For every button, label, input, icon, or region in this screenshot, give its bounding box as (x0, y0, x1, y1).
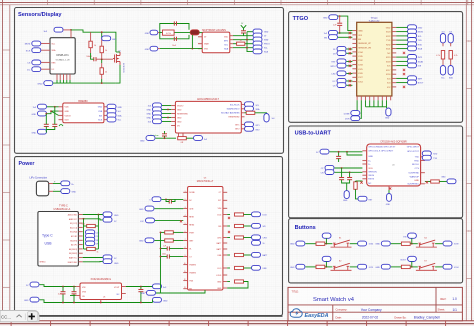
svg-text:B1A12 GND: B1A12 GND (68, 261, 78, 264)
IC U1 XC6210A332MR-G (76, 278, 126, 303)
svg-text:SDI: SDI (99, 115, 103, 117)
wire (158, 32, 160, 34)
netport max DO4 (252, 212, 267, 217)
svg-text:NC: NC (368, 183, 372, 185)
svg-text:Sensors/Display: Sensors/Display (18, 12, 62, 18)
netport D+ (uart) (321, 165, 334, 170)
netport adxl GND (147, 115, 162, 120)
svg-text:USB4105-GF-A: USB4105-GF-A (54, 208, 71, 211)
netport ttgo 3v3 (324, 30, 338, 35)
wire (396, 31, 407, 33)
netport GND (uart bottom) (386, 187, 392, 205)
netport SCL (adxl) (245, 102, 260, 107)
netport 5V (typec) (103, 217, 117, 223)
netport max BATT (252, 252, 269, 257)
netport adxl 3v3 (148, 103, 162, 108)
resistor S7 pulldown (401, 265, 410, 268)
capacitor C11 1uF (58, 292, 66, 296)
resistor R3 (100, 63, 107, 79)
netport B+ (lipo) (61, 181, 75, 186)
netport GND (max cen) (139, 206, 183, 211)
netport GND (reg out) (153, 297, 169, 302)
svg-text:LiPo Connection: LiPo Connection (30, 177, 48, 180)
svg-text:PSET: PSET (189, 232, 195, 234)
netport INT1 (245, 122, 260, 127)
IC U2 BME680 (59, 100, 108, 123)
svg-text:SCL: SCL (256, 105, 260, 107)
svg-text:VOUT: VOUT (114, 287, 120, 289)
svg-text:VIN: VIN (82, 287, 86, 289)
svg-text:SENSOR_VN: SENSOR_VN (358, 48, 371, 50)
svg-text:INT1: INT1 (256, 125, 260, 127)
svg-text:LED: LED (112, 39, 117, 41)
connector P1 LiPo (30, 177, 57, 196)
svg-text:CSB: CSB (98, 111, 103, 113)
svg-text:VDD: VDD (224, 37, 229, 39)
netport GND (reg) (24, 297, 39, 302)
svg-text:DO4: DO4 (217, 214, 221, 216)
wire (162, 105, 171, 107)
svg-text:GPIO.1/RS485 GPIO.3/TXT: GPIO.1/RS485 GPIO.3/TXT (368, 147, 396, 149)
title block (288, 287, 462, 320)
svg-text:GND: GND (163, 300, 168, 302)
svg-text:VDD: VDD (368, 168, 373, 170)
netport PROG (253, 41, 270, 46)
svg-text:CC...: CC... (1, 315, 11, 320)
svg-text:4.7k: 4.7k (454, 55, 458, 57)
svg-text:GND: GND (177, 121, 182, 123)
svg-text:A5 [CC1]: A5 [CC1] (70, 226, 77, 229)
svg-text:USB-to-UART: USB-to-UART (295, 130, 332, 136)
svg-text:GND: GND (343, 200, 348, 202)
section box Power (15, 157, 283, 316)
svg-text:VBAT: VBAT (204, 43, 210, 46)
netport DONE (344, 111, 360, 116)
wire (410, 243, 418, 245)
wire ttgo bottom bus (366, 106, 387, 108)
resistor RR DO4 (227, 213, 251, 216)
netport 3v3 (adxl pullup) (264, 114, 275, 123)
netport CS (27, 60, 41, 65)
netport max USB (252, 265, 268, 270)
svg-text:ADXL345BCCZ-RLT: ADXL345BCCZ-RLT (197, 98, 219, 101)
netport GND (253, 29, 269, 34)
svg-text:EasyEDA: EasyEDA (305, 313, 329, 319)
switch S7 (416, 261, 437, 271)
svg-text:VSS: VSS (82, 292, 87, 294)
wire (396, 56, 407, 58)
svg-text:3v3: 3v3 (204, 139, 207, 141)
wire (396, 35, 407, 37)
netport MOSI (25, 41, 41, 46)
wire charger to ports (233, 35, 253, 37)
svg-text:4.7k: 4.7k (436, 55, 440, 57)
svg-text:GPIO.3/TXT: GPIO.3/TXT (407, 151, 420, 153)
svg-text:GND: GND (177, 117, 182, 119)
IC U4 MCP73831T-2ACI/MS (198, 29, 233, 52)
netport ttgo GND (408, 25, 423, 30)
netport 3v3 (reg out) (153, 284, 168, 289)
wire (435, 243, 443, 245)
svg-text:10.75k: 10.75k (166, 33, 171, 35)
netport QS (max top) (149, 197, 183, 202)
wire (101, 59, 103, 63)
svg-text:REN2: REN2 (189, 224, 194, 226)
capacitor C8 (336, 156, 341, 162)
svg-text:CC1: CC1 (96, 236, 99, 238)
wire (396, 77, 407, 79)
resistor RR CHG (227, 236, 251, 239)
switch S2 (331, 261, 352, 271)
svg-text:DISPLAY1: DISPLAY1 (56, 53, 69, 57)
resistor RM1 PSET (160, 231, 184, 234)
svg-text:1k: 1k (105, 72, 107, 74)
svg-text:GND: GND (147, 118, 152, 120)
capacitor C12 (72, 292, 77, 294)
resistor S1 pulldown (316, 242, 325, 245)
svg-text:1k: 1k (97, 252, 99, 254)
resistor R10 suspend (425, 180, 447, 184)
svg-text:SCK: SCK (26, 50, 31, 52)
wire (347, 48, 353, 50)
wire (435, 266, 443, 268)
wire (396, 43, 407, 45)
svg-text:GND: GND (139, 241, 144, 243)
svg-text:Bradley_Campbell: Bradley_Campbell (414, 316, 440, 320)
resistor R11 10.7k (163, 30, 175, 35)
netport GND (charger in) (145, 30, 158, 35)
netport bme 3v3 (107, 109, 121, 114)
wire (347, 80, 353, 82)
wire (305, 243, 316, 245)
section box USB-to-UART (289, 126, 463, 218)
svg-text:VD4: VD4 (218, 208, 222, 210)
wire typec cc bus (83, 219, 85, 249)
net flag above S1 (322, 233, 331, 244)
netport GND (button S2) (290, 264, 305, 269)
svg-text:CTS: CTS (415, 168, 420, 170)
svg-text:SCL: SCL (441, 78, 445, 80)
netport B- (lipo) (61, 189, 77, 194)
svg-text:RI/CLK: RI/CLK (412, 164, 420, 166)
power net symbol 5V (charger) (241, 23, 246, 31)
netport ttgo DC (333, 78, 346, 83)
svg-text:SCL: SCL (118, 120, 122, 122)
netport ttgo CS (333, 83, 346, 88)
netport LOW (max) (140, 218, 183, 223)
netport 3v3 (bme) (33, 104, 47, 109)
svg-text:B8 [SBU2]: B8 [SBU2] (69, 253, 77, 255)
wire (45, 114, 47, 125)
svg-text:LED: LED (332, 74, 336, 76)
svg-text:GND: GND (368, 156, 373, 158)
svg-text:GND: GND (375, 267, 380, 269)
svg-text:GND: GND (386, 204, 391, 206)
resistor R1 (89, 32, 96, 53)
svg-text:MOSI: MOSI (25, 44, 31, 46)
wire (347, 52, 353, 54)
netport D- (uart) (321, 170, 334, 175)
netport ttgo INT2 (408, 55, 424, 60)
svg-text:TXD: TXD (433, 158, 437, 160)
netport RST (356, 189, 374, 201)
netport SDA (253, 49, 269, 54)
netport RXD (uart) (422, 151, 438, 156)
svg-text:GND: GND (72, 192, 77, 194)
netport SCL pullup (440, 66, 445, 80)
svg-text:BOOT: BOOT (418, 83, 424, 85)
netport GND (bme) (32, 111, 47, 116)
svg-text:1k: 1k (94, 45, 96, 47)
svg-text:BOOT: BOOT (401, 260, 407, 262)
wire (186, 137, 193, 139)
transistor Q1 MOSFET (113, 51, 124, 74)
netport GND (ttgo bottom) (385, 107, 391, 120)
netport bme SDA (107, 113, 122, 118)
svg-text:WIFI: WIFI (418, 78, 423, 80)
svg-text:GND: GND (141, 293, 146, 295)
resistor R9 (354, 181, 363, 189)
netport LED (102, 36, 117, 41)
svg-text:GND: GND (386, 27, 391, 29)
switch S1 (331, 237, 352, 247)
resistor RR USB (227, 266, 251, 269)
netport GND (bme caps) (32, 129, 47, 134)
wire (396, 48, 407, 50)
netport GND (button S1) (290, 241, 305, 246)
netport ttgo BOOT (408, 80, 425, 85)
wire (396, 82, 407, 84)
svg-text:1.0: 1.0 (452, 297, 457, 301)
netport SDA (adxl) (245, 106, 261, 111)
wire (347, 61, 353, 63)
svg-text:GC9A01_1.28: GC9A01_1.28 (56, 59, 71, 62)
netport adxl 3v3 (148, 119, 162, 124)
wire rc network loop (160, 24, 189, 39)
wire (347, 65, 353, 67)
netport 5V (typec bottom) (103, 255, 117, 260)
svg-text:LDO: LDO (217, 268, 221, 270)
svg-text:RXD: RXD (433, 154, 438, 156)
svg-text:VBUS: VBUS (368, 175, 374, 177)
svg-text:GND: GND (375, 244, 380, 246)
wire (325, 266, 333, 268)
svg-text:Drawn By:: Drawn By: (394, 315, 406, 319)
svg-text:13: 13 (184, 287, 186, 289)
svg-text:Sheet:: Sheet: (438, 308, 446, 312)
netport ttgo EN (324, 35, 337, 40)
svg-text:SOL: SOL (224, 45, 228, 47)
svg-text:SCL/SCLK: SCL/SCLK (230, 104, 240, 106)
svg-text:WAKEUP: WAKEUP (410, 175, 420, 178)
svg-text:1k: 1k (105, 50, 107, 52)
resistor RR2 (227, 280, 248, 288)
svg-text:NPG: NPG (224, 41, 229, 43)
wire (101, 32, 103, 38)
wire (350, 243, 358, 245)
capacitor CM3 CT (160, 253, 184, 258)
svg-text:VDDIO: VDDIO (177, 105, 184, 107)
svg-text:GND: GND (264, 32, 269, 34)
svg-text:GND: GND (114, 215, 119, 217)
svg-text:INT2: INT2 (256, 129, 260, 131)
wire (335, 167, 363, 169)
wire 3v3 rail (71, 30, 116, 52)
svg-text:GND: GND (414, 180, 419, 182)
wire (347, 73, 353, 75)
netport 5V (uart) (316, 149, 329, 154)
title text (292, 290, 458, 319)
capacitor C10 (347, 178, 352, 180)
svg-text:GND: GND (24, 300, 29, 302)
svg-text:1/1: 1/1 (453, 308, 458, 312)
svg-text:CS: CS (27, 63, 31, 65)
svg-text:DO4: DO4 (263, 215, 267, 217)
capacitor C6 tantalum (150, 134, 167, 137)
netport ttgo LED (332, 71, 346, 76)
netport ttgo D3 (333, 51, 346, 56)
svg-text:SDO: SDO (65, 120, 70, 122)
netport max S/S (252, 223, 267, 228)
svg-text:CHG: CHG (263, 238, 268, 240)
wire (305, 266, 316, 268)
wire (396, 26, 407, 28)
switch S4 (416, 237, 437, 247)
netport ttgo TXD (408, 38, 423, 43)
svg-text:CP2102N-A02-GQFN28R: CP2102N-A02-GQFN28R (380, 140, 407, 143)
wire typec gnd2 (83, 260, 103, 262)
wire (164, 131, 166, 134)
netport 3v3 pullup1 (440, 31, 445, 43)
svg-text:Smart Watch v4: Smart Watch v4 (313, 297, 355, 303)
svg-text:CHG: CHG (217, 237, 222, 239)
capacitor C13 1uF (138, 290, 148, 304)
svg-text:11: 11 (184, 271, 186, 273)
svg-text:BATT: BATT (217, 242, 223, 245)
capacitor C15 (bottom) (174, 37, 176, 41)
netport adxl GND (147, 107, 162, 112)
netport max CHG (252, 235, 268, 240)
svg-text:3v3: 3v3 (442, 31, 445, 33)
svg-text:LOC: LOC (140, 221, 145, 223)
resistor RR S/S (227, 224, 251, 227)
netport bme SCL (107, 117, 121, 122)
wire typec gnd (83, 214, 103, 216)
svg-text:100n: 100n (162, 253, 166, 255)
svg-text:5.1k: 5.1k (82, 223, 85, 225)
svg-text:GND: GND (145, 49, 150, 51)
wire (391, 243, 402, 245)
svg-text:GND: GND (418, 27, 423, 29)
wire (40, 285, 76, 287)
svg-text:A6 DP1: A6 DP1 (71, 244, 77, 247)
svg-text:MTDI: MTDI (331, 66, 336, 68)
netport ttgo RST (332, 59, 347, 64)
section box TTGO (289, 12, 463, 123)
wire (162, 117, 171, 119)
netport GND (display) (37, 81, 52, 86)
capacitor CM1 (166, 199, 175, 203)
wire (396, 65, 407, 67)
svg-text:MAX17043G+T: MAX17043G+T (197, 180, 214, 183)
resistor R8 4.7k (449, 43, 458, 66)
capacitor C7 1uF (333, 16, 342, 34)
svg-text:RXD: RXD (418, 44, 423, 46)
svg-text:D-: D- (368, 164, 371, 166)
svg-text:SDA: SDA (418, 48, 423, 51)
svg-text:GND: GND (217, 281, 222, 283)
svg-text:GND: GND (65, 111, 70, 113)
capacitor C2 1uF (241, 31, 246, 33)
wire max left bus (156, 232, 161, 293)
wire (162, 121, 171, 123)
svg-text:VREGIN: VREGIN (368, 172, 377, 174)
svg-text:B4A9 VCC: B4A9 VCC (69, 257, 78, 260)
section box Sensors/Display (15, 8, 284, 154)
wire (347, 84, 353, 86)
svg-text:A1B12 GND: A1B12 GND (68, 214, 78, 217)
wire (338, 16, 353, 31)
netport STAT (253, 37, 269, 42)
wire (396, 60, 407, 62)
wire typec vcc (83, 219, 103, 220)
capacitor C9 (339, 178, 344, 180)
resistor R5 0R (178, 137, 187, 144)
svg-text:VL: VL (263, 243, 265, 245)
svg-text:GND: GND (118, 107, 123, 109)
netport ttgo MTDI (331, 63, 346, 68)
svg-text:RXD: RXD (414, 160, 419, 162)
svg-text:CC2: CC2 (96, 233, 99, 235)
EasyEDA logo (290, 309, 328, 319)
resistor R4 2k (237, 40, 245, 45)
section box Buttons (289, 219, 463, 283)
netport GND (button S7) (375, 264, 390, 269)
svg-text:GND: GND (32, 114, 37, 116)
netport GND (button S4) (375, 241, 390, 246)
capacitor C14 (top) (174, 21, 176, 25)
svg-text:10uF: 10uF (172, 45, 176, 47)
svg-text:GND: GND (140, 141, 145, 143)
resistor R6 (245, 111, 267, 114)
IC U3 MAX17043G+T (183, 178, 227, 291)
netport INT (194, 136, 208, 141)
netport GND (suspend) (441, 177, 456, 184)
svg-text:TYPE-C: TYPE-C (59, 205, 68, 208)
wire (350, 266, 358, 268)
svg-text:TXD: TXD (386, 40, 391, 42)
svg-text:GND: GND (177, 109, 182, 111)
svg-text:2k: 2k (240, 40, 242, 42)
svg-text:Date:: Date: (336, 315, 342, 319)
net flag above S7 (401, 256, 417, 267)
svg-text:3v3: 3v3 (118, 111, 121, 113)
module U5 TTGO T-Micro32 (352, 17, 396, 100)
wire (47, 106, 59, 108)
svg-text:DONE: DONE (344, 113, 350, 115)
wire (116, 51, 120, 53)
svg-text:Power: Power (19, 161, 35, 167)
thermistor TH1 (189, 30, 202, 35)
netport IO35 (358, 241, 374, 246)
svg-text:GND: GND (37, 84, 42, 86)
netport GND (typec bottom) (103, 259, 119, 265)
IC U4 CP2102N-A02-GQFN28R (362, 140, 425, 190)
wire (410, 266, 418, 268)
svg-text:GND: GND (385, 118, 390, 120)
netport DC (27, 67, 41, 72)
svg-text:12: 12 (184, 279, 186, 281)
